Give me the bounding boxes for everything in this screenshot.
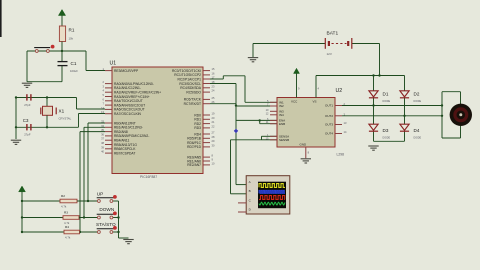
svg-text:27pF: 27pF	[24, 103, 31, 107]
svg-text:UP: UP	[97, 191, 104, 196]
svg-text:R2: R2	[61, 194, 65, 198]
svg-text:STA/STO: STA/STO	[96, 222, 116, 227]
svg-text:RD3: RD3	[194, 126, 201, 130]
svg-text:C3: C3	[23, 118, 29, 123]
svg-text:4.7k: 4.7k	[61, 205, 67, 209]
svg-text:U2: U2	[336, 88, 343, 94]
svg-text:VS: VS	[313, 100, 317, 104]
svg-text:D2: D2	[414, 92, 420, 97]
svg-text:RD7/P1D: RD7/P1D	[187, 145, 202, 149]
svg-text:OUT3: OUT3	[325, 123, 333, 127]
svg-text:DIODE: DIODE	[414, 137, 422, 140]
svg-text:C1: C1	[71, 61, 77, 66]
svg-text:D3: D3	[383, 128, 389, 133]
svg-text:RE2/AN7: RE2/AN7	[187, 163, 201, 167]
svg-text:U1: U1	[110, 61, 117, 67]
svg-text:DOWN: DOWN	[99, 207, 114, 212]
svg-text:IN2: IN2	[279, 104, 284, 108]
svg-text:A: A	[249, 180, 251, 184]
svg-text:R4: R4	[65, 225, 69, 229]
svg-text:OUT4: OUT4	[325, 132, 333, 136]
svg-text:SENSB: SENSB	[279, 138, 289, 142]
svg-text:27pF: 27pF	[24, 133, 31, 137]
svg-text:X1: X1	[59, 109, 65, 114]
svg-text:DIODE: DIODE	[383, 137, 391, 140]
svg-text:DIODE: DIODE	[414, 100, 422, 103]
svg-text:RC7/RX/DT: RC7/RX/DT	[184, 102, 201, 106]
svg-text:R1: R1	[69, 28, 75, 33]
svg-text:RA7/OSC1/CLKIN: RA7/OSC1/CLKIN	[114, 112, 142, 116]
svg-text:ENB: ENB	[279, 122, 285, 126]
svg-text:B: B	[249, 189, 251, 193]
svg-text:DIODE: DIODE	[383, 100, 391, 103]
svg-text:L298: L298	[337, 153, 345, 157]
svg-text:100uF: 100uF	[70, 69, 78, 73]
svg-text:12V: 12V	[327, 52, 332, 56]
svg-text:BAT1: BAT1	[327, 31, 339, 37]
svg-text:GND: GND	[300, 143, 308, 147]
svg-text:10k: 10k	[69, 37, 74, 41]
svg-text:VCC: VCC	[291, 100, 298, 104]
svg-text:RC2/P1A/CCP1: RC2/P1A/CCP1	[178, 77, 202, 81]
svg-text:OUT2: OUT2	[325, 114, 333, 118]
svg-text:R3: R3	[64, 211, 68, 215]
svg-text:CRYSTAL: CRYSTAL	[59, 117, 72, 121]
svg-text:4.7k: 4.7k	[65, 236, 71, 240]
svg-text:D1: D1	[383, 92, 389, 97]
svg-text:RE3/MCLR/VPP: RE3/MCLR/VPP	[114, 69, 139, 73]
svg-text:PIC16F887: PIC16F887	[140, 175, 157, 179]
svg-text:RC5/SDO: RC5/SDO	[186, 90, 201, 94]
svg-text:RB7/ICSPDAT: RB7/ICSPDAT	[114, 151, 135, 155]
svg-text:OUT1: OUT1	[325, 104, 333, 108]
svg-text:D4: D4	[414, 128, 420, 133]
svg-text:IN4: IN4	[279, 113, 284, 117]
